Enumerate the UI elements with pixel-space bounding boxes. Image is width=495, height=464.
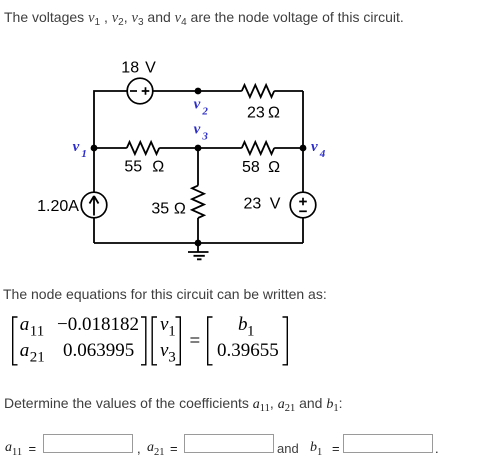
- svg-text:Ω: Ω: [174, 201, 186, 218]
- current source I1 1.20A: [81, 192, 107, 218]
- voltage source V2 23V: [290, 192, 316, 218]
- answer row: [5, 441, 22, 454]
- svg-text:21: 21: [30, 350, 45, 366]
- wire v3 to 58ohm: [198, 147, 242, 149]
- minus sign of 23V source: [299, 210, 307, 212]
- wire top-left corner to voltage source: [94, 91, 128, 148]
- node v3 junction dot: [195, 145, 202, 152]
- svg-text:V: V: [270, 195, 281, 212]
- node v2 junction dot: [195, 88, 202, 95]
- wire 35ohm to ground node: [197, 218, 199, 243]
- svg-text:1: 1: [247, 324, 255, 340]
- resistor R2 55ohm: [127, 142, 159, 154]
- minus sign of 18V source: [130, 90, 137, 92]
- svg-text:35: 35: [151, 201, 169, 218]
- svg-text:V: V: [145, 60, 156, 77]
- wire v1 to 55ohm: [94, 147, 127, 149]
- wire v3 down to 35ohm: [197, 148, 199, 186]
- svg-text:Ω: Ω: [268, 104, 280, 121]
- svg-text:23: 23: [247, 104, 265, 121]
- svg-text:v: v: [194, 97, 201, 113]
- wire v4 to 23V source: [302, 148, 304, 193]
- resistor R1 23ohm: [242, 85, 274, 97]
- svg-text:0.39655: 0.39655: [217, 340, 279, 361]
- wire 23ohm to top-right corner: [274, 90, 303, 92]
- svg-text:v: v: [194, 122, 201, 138]
- svg-text:a: a: [20, 340, 30, 361]
- plus sign of 23V source: [299, 198, 307, 206]
- node v4 junction dot: [300, 145, 307, 152]
- resistor R3 58ohm: [242, 142, 274, 154]
- svg-text:1: 1: [81, 148, 87, 160]
- resistor R4 35ohm: [192, 186, 204, 218]
- wire 23V source to bottom-right corner: [302, 218, 304, 244]
- svg-text:55: 55: [124, 158, 142, 175]
- svg-text:18: 18: [121, 60, 139, 77]
- svg-text:v: v: [73, 139, 80, 155]
- wire right side top to v4: [302, 91, 304, 148]
- sentence 1: [4, 10, 404, 25]
- svg-text:58: 58: [242, 159, 260, 176]
- wire 58ohm to v4: [274, 147, 303, 149]
- node v1 junction dot: [91, 145, 98, 152]
- svg-text:1: 1: [168, 324, 176, 340]
- wire voltage source to v2: [153, 90, 242, 92]
- svg-text:0.063995: 0.063995: [63, 340, 134, 361]
- svg-text:11: 11: [30, 324, 44, 340]
- svg-text:v: v: [311, 139, 318, 155]
- svg-text:a: a: [20, 314, 30, 335]
- matrix equation brackets: [13, 317, 288, 365]
- svg-text:1.20A: 1.20A: [37, 198, 79, 215]
- svg-text:=: =: [190, 331, 201, 352]
- svg-text:−0.018182: −0.018182: [57, 314, 139, 335]
- voltage source V1 18V: [127, 78, 153, 104]
- ground node junction dot: [195, 240, 202, 247]
- sentence 2: [3, 287, 327, 301]
- wire 55ohm to v3: [159, 147, 198, 149]
- svg-text:Ω: Ω: [268, 159, 280, 176]
- wire v1 down to current source: [93, 148, 95, 193]
- wire current source to bottom-left corner: [93, 218, 95, 244]
- svg-text:Ω: Ω: [152, 158, 164, 175]
- sentence 3: [4, 396, 342, 412]
- plus sign of 18V source: [142, 87, 150, 95]
- matrix equation text: [20, 314, 279, 366]
- ground: [188, 243, 209, 259]
- wire bottom: [94, 242, 303, 244]
- svg-text:3: 3: [168, 350, 176, 366]
- arrow of current source: [90, 196, 99, 216]
- svg-text:2: 2: [201, 106, 208, 118]
- svg-text:3: 3: [201, 130, 208, 142]
- svg-text:23: 23: [244, 195, 262, 212]
- svg-text:4: 4: [319, 148, 326, 160]
